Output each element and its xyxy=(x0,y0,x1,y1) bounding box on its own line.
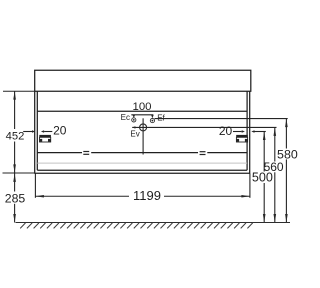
dimension 452 down arrow xyxy=(13,164,16,173)
svg-text:20: 20 xyxy=(53,124,67,138)
svg-text:Ev: Ev xyxy=(130,129,139,138)
right drawer slide bracket xyxy=(236,135,248,142)
dimension 285 down arrow xyxy=(13,214,16,223)
dimension 452 up arrow xyxy=(13,91,16,100)
svg-text:1199: 1199 xyxy=(133,188,161,203)
equal mark right xyxy=(200,151,206,155)
svg-text:580: 580 xyxy=(277,147,298,161)
dimension 580 line xyxy=(285,119,287,223)
dimension 500 line xyxy=(263,132,265,223)
floor hatching xyxy=(20,223,253,229)
dimension 100 left tick arrow xyxy=(133,115,136,118)
cabinet right inner side xyxy=(246,91,248,170)
dimension 580 up arrow xyxy=(285,119,288,128)
Ev connector left arrow xyxy=(132,126,135,128)
dimension 452 extension line top xyxy=(3,90,35,92)
cabinet right outer side xyxy=(249,91,251,174)
svg-text:20: 20 xyxy=(219,124,233,138)
dimension 560 line xyxy=(274,127,276,222)
Ef circle xyxy=(150,119,154,123)
cabinet bottom inner line xyxy=(37,169,247,171)
dimension 1199 left arrow xyxy=(35,195,44,198)
cabinet top rail line xyxy=(37,110,247,112)
dimension 452 line xyxy=(14,91,16,173)
dimension 1199 extension left xyxy=(34,174,36,198)
left drawer slide bracket xyxy=(39,135,51,142)
svg-text:285: 285 xyxy=(5,191,26,205)
dimension 560 up arrow xyxy=(274,127,277,135)
svg-text:Ec: Ec xyxy=(121,113,130,122)
countertop xyxy=(35,70,251,91)
dimension 580 down arrow xyxy=(285,214,288,223)
Ec Ef connector line to 580 xyxy=(155,118,288,120)
cabinet bottom outer line xyxy=(35,172,250,174)
floor line xyxy=(16,222,291,224)
drawer bottom faint line xyxy=(37,162,247,164)
dimension 100 line xyxy=(131,114,153,116)
dimension 1199 right arrow xyxy=(241,195,250,198)
dimension 452 extension line bottom xyxy=(3,172,35,174)
Ev horizontal connector line to 560 xyxy=(132,126,276,128)
svg-text:452: 452 xyxy=(6,131,25,143)
dimension 1199 line xyxy=(35,195,250,197)
dimension 500 down arrow xyxy=(263,214,266,223)
drawer divider line xyxy=(37,152,247,154)
Ev circle xyxy=(140,124,147,131)
dimension 20 left leader xyxy=(23,131,52,133)
dimension 500 up arrow xyxy=(263,132,266,141)
dimension 100 right tick arrow xyxy=(151,115,154,118)
dimension 285 line xyxy=(14,173,16,223)
svg-text:100: 100 xyxy=(132,101,151,113)
svg-text:560: 560 xyxy=(264,160,284,174)
cabinet left inner side xyxy=(36,91,38,170)
cabinet left outer side xyxy=(34,91,36,174)
Ev vertical axis line xyxy=(142,118,144,154)
dimension 1199 extension right xyxy=(249,174,251,198)
dimension 20 right leader xyxy=(233,131,266,133)
Ec circle xyxy=(132,118,136,122)
dimension 285 up arrow xyxy=(13,173,16,182)
equal mark left xyxy=(83,151,89,155)
dimension 560 down arrow xyxy=(274,214,277,223)
